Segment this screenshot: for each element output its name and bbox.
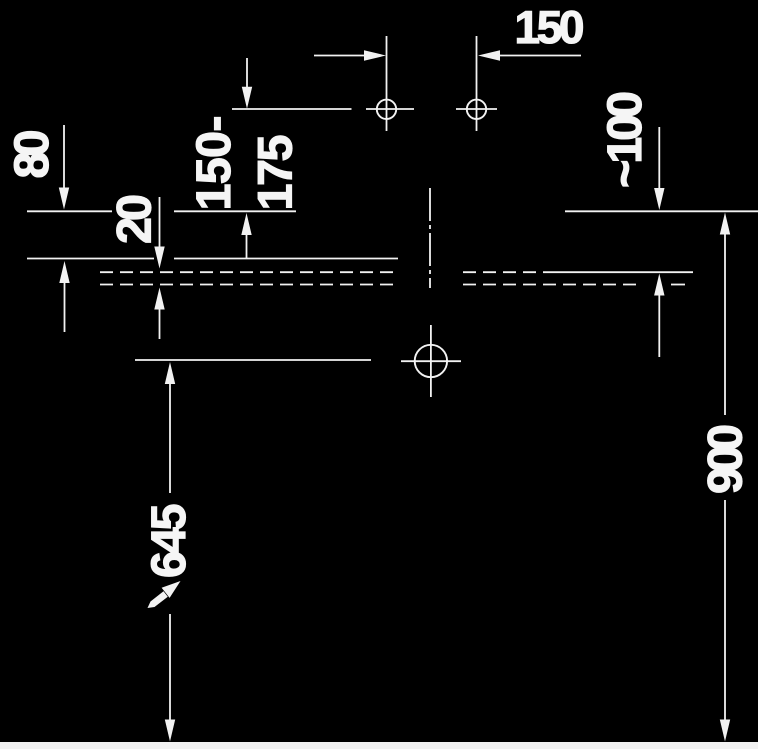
arrowhead dim150-175 down xyxy=(242,87,252,109)
dim 900 upper line xyxy=(724,231,726,415)
floor band xyxy=(0,742,758,749)
dashed shelf line row2 right segment b xyxy=(671,284,685,286)
dim 150 left line xyxy=(314,55,366,57)
dim 645 lower line xyxy=(169,614,171,722)
rim line left segment b xyxy=(174,210,296,212)
drain level line xyxy=(135,359,371,361)
dashed shelf line row2 left xyxy=(100,284,397,286)
arrowhead dim20 up xyxy=(154,288,164,310)
arrowhead dim80 down xyxy=(59,188,69,210)
arrowhead dim645 up xyxy=(165,362,175,384)
svg-text:150-: 150- xyxy=(187,116,241,211)
arrowhead dim645 down xyxy=(165,720,175,742)
dashed shelf line row2 right segment a xyxy=(463,284,642,286)
arrowhead dim80 up xyxy=(59,261,69,283)
faucet hole 1 circle xyxy=(377,100,396,119)
dim 150 right line xyxy=(500,55,581,57)
svg-text:175: 175 xyxy=(249,135,303,211)
arrowhead dim150-175 up xyxy=(241,213,251,235)
dim ~100 lower line xyxy=(658,292,660,357)
basin center dash-dot line xyxy=(429,188,431,288)
arrowhead dim20 down xyxy=(154,247,164,269)
dim 80 lower line xyxy=(64,280,66,332)
svg-text:20: 20 xyxy=(108,194,162,244)
drain hole circle xyxy=(415,345,447,377)
arrowhead dim150 pointing right xyxy=(364,50,386,60)
dim 150-175 upper line xyxy=(246,58,248,90)
hole 2 centerline vertical xyxy=(476,36,478,131)
arrowhead dim150 pointing left xyxy=(478,50,500,60)
dashed shelf line row1 left xyxy=(100,271,397,273)
line B segment a xyxy=(27,258,154,260)
faucet hole 2 circle xyxy=(467,100,486,119)
hole 1 crosshair horizontal xyxy=(366,108,414,110)
svg-text:150: 150 xyxy=(515,1,585,53)
line B segment b xyxy=(174,258,398,260)
svg-text:645: 645 xyxy=(142,504,196,579)
hole 2 centerline horizontal xyxy=(456,108,497,110)
svg-text:80: 80 xyxy=(5,130,59,179)
svg-text:~100: ~100 xyxy=(598,91,652,188)
rim line left segment a xyxy=(27,210,112,212)
drain circle crosshair horizontal xyxy=(401,360,461,362)
dim ~100 upper line xyxy=(658,127,660,191)
drain circle crosshair vertical xyxy=(430,325,432,397)
dim 20 lower line xyxy=(159,306,161,339)
hole 1 reference line xyxy=(232,108,352,110)
hole 1 centerline vertical xyxy=(386,36,388,131)
arrowhead dim~100 down xyxy=(654,188,664,210)
rim line right xyxy=(565,210,758,212)
adjustability arrow for 645 xyxy=(148,581,181,608)
svg-text:900: 900 xyxy=(699,424,753,494)
dim 20 upper line xyxy=(159,197,161,250)
dim ~100 lower reference line xyxy=(551,271,693,273)
arrowhead dim900 down xyxy=(720,720,730,742)
arrowhead dim~100 up xyxy=(654,274,664,296)
dim 80 upper line xyxy=(63,125,65,189)
dim 150-175 lower line xyxy=(246,232,248,259)
dim 645 upper line xyxy=(169,381,171,493)
dashed shelf line row1 right xyxy=(463,271,551,273)
arrowhead dim900 up xyxy=(720,213,730,235)
dim 900 lower line xyxy=(724,500,726,722)
